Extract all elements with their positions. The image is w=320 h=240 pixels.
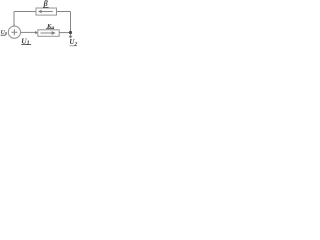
svg-text:β: β (43, 0, 49, 8)
svg-text:Ku: Ku (46, 23, 54, 31)
